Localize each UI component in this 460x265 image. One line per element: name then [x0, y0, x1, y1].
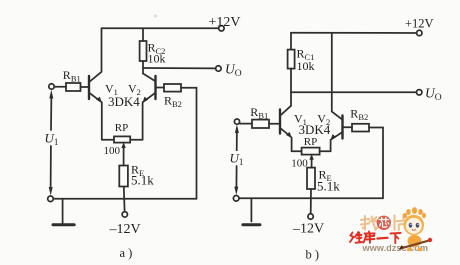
svg-text:–12V: –12V — [109, 222, 141, 237]
wire: RB1 to V1 base — [81, 86, 89, 88]
svg-text:a ): a ) — [120, 246, 133, 260]
svg-text:10k: 10k — [148, 52, 166, 66]
watermark mascot — [399, 207, 433, 251]
transistor V2 collector lead (b) from rail — [332, 33, 342, 119]
terminal -12V (circuit a) — [122, 212, 127, 217]
transistor V2 collector lead — [143, 74, 155, 82]
resistor RC2 — [140, 41, 147, 61]
svg-text:100: 100 — [291, 158, 308, 170]
wire: RB1 to V1 base (b) — [269, 123, 279, 125]
wire: RC1 top to rail — [290, 33, 292, 50]
potentiometer RP wiper arrow (b) — [311, 157, 313, 168]
wire: input terminal to RB1 (b) — [240, 123, 252, 125]
wire: output Uo (circuit a) — [143, 67, 216, 69]
svg-text:5.1k: 5.1k — [317, 179, 340, 194]
wire: V2 base to RB2 (b) — [343, 126, 352, 128]
svg-text:5.1k: 5.1k — [131, 173, 154, 188]
resistor RB2 (circuit b) — [352, 124, 369, 132]
transistor V1 emitter lead with arrow (b) — [281, 129, 292, 152]
potentiometer RP (circuit b) body — [302, 148, 320, 155]
potentiometer RP wiper arrow — [123, 145, 125, 166]
transistor V1 (circuit a) base bar — [88, 76, 90, 99]
terminal -12V (circuit b) — [308, 214, 313, 219]
transistor V1 emitter lead with arrow — [90, 93, 102, 140]
watermark glyph 找 (stylized orange) — [361, 216, 378, 230]
wire: RE bottom to -12V terminal — [123, 187, 126, 212]
wire: RB2 right to bottom rail — [181, 88, 197, 199]
terminal +12V (circuit a) — [219, 26, 224, 31]
wire: bottom ground rail (circuit b) — [239, 197, 383, 199]
wire: V2 base to RB2 — [156, 87, 164, 89]
svg-text:b ): b ) — [306, 248, 320, 262]
terminal input bottom (circuit b) — [233, 196, 239, 202]
transistor V1 collector lead (b) — [281, 69, 291, 116]
resistor RE (circuit b) — [307, 168, 315, 189]
wire: rail to RC2 top — [142, 28, 144, 41]
wire: V1 emitter to RP left (b) — [292, 150, 302, 152]
svg-text:RP: RP — [115, 122, 128, 134]
input terminal (top-left, circuit a) — [49, 84, 54, 89]
transistor V1 collector lead — [90, 28, 102, 81]
svg-text:–12V: –12V — [292, 222, 324, 237]
transistor V2 (circuit b) base bar — [341, 116, 343, 139]
watermark glyph 库 (red) — [364, 232, 375, 243]
resistor RB2 (circuit a) — [164, 84, 181, 92]
wire: input line U1 with arrows (circuit a) — [50, 95, 52, 130]
svg-text:3DK4: 3DK4 — [108, 94, 140, 109]
transistor V2 emitter lead with arrow — [143, 93, 155, 140]
watermark glyph 维 (red) — [350, 232, 362, 243]
wire: +12V top rail (circuit a) — [102, 27, 219, 29]
svg-text:3DK4: 3DK4 — [299, 122, 331, 137]
wire: V2 emitter to RP right (b) — [320, 150, 331, 152]
resistor RB1 (circuit b) — [252, 120, 269, 128]
transistor V2 emitter lead with arrow (b) — [331, 133, 342, 152]
watermark glyph 下 (red) — [391, 233, 401, 243]
svg-text:RP: RP — [304, 136, 317, 148]
svg-text:+12V: +12V — [209, 15, 241, 30]
wire: V1 emitter to RP left — [102, 139, 114, 141]
resistor RC1 — [288, 50, 295, 69]
wire: bottom ground rail (circuit a) — [53, 198, 196, 200]
terminal +12V (circuit b) — [417, 30, 422, 35]
wire: RE bottom to -12V terminal (b) — [310, 189, 312, 214]
scan speck — [154, 15, 157, 18]
wire: V2 emitter to RP right — [130, 139, 142, 141]
wire: input line U1 with arrows (circuit b) — [236, 130, 238, 153]
potentiometer RP (circuit a) body — [114, 136, 130, 142]
watermark logo red circle — [377, 216, 391, 230]
wire: output Uo (circuit b) — [291, 91, 417, 93]
svg-text:10k: 10k — [297, 59, 315, 73]
resistor RB1 (circuit a) — [66, 83, 81, 91]
label U1 (circuit b) — [228, 151, 244, 165]
wire: RC2 bottom to V2 collector junction — [142, 61, 144, 74]
watermark glyph 片 (stylized orange) — [395, 215, 404, 230]
terminal Uo (circuit a) — [216, 66, 221, 71]
input terminal (circuit b) — [234, 119, 239, 124]
terminal input bottom (circuit a) — [48, 196, 54, 202]
transistor V1 (circuit b) base bar — [279, 110, 281, 134]
watermark glyph 芯 (white on red) — [379, 218, 389, 228]
ground symbol (circuit a) — [62, 199, 64, 223]
wire: RB2 right to bottom rail (b) — [369, 128, 383, 199]
resistor RE (circuit a) — [119, 166, 128, 187]
terminal Uo (circuit b) — [417, 90, 422, 95]
transistor V2 (circuit a) base bar — [154, 76, 156, 99]
svg-text:+12V: +12V — [405, 17, 434, 31]
watermark glyph 一 (red) — [378, 237, 388, 240]
label U1 (circuit a) — [42, 131, 59, 145]
wire: input terminal to RB1 — [54, 86, 66, 88]
wire: +12V top rail (circuit b) — [291, 32, 417, 34]
ground symbol (circuit b) — [250, 198, 252, 221]
svg-text:100: 100 — [104, 145, 121, 157]
